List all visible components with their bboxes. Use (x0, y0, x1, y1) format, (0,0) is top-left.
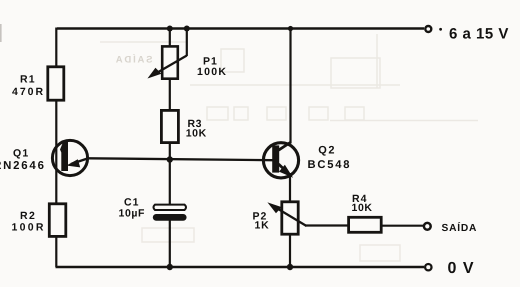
junction node bottom C1 (167, 264, 173, 270)
wire P2 to bottom rail (289, 235, 291, 268)
terminal 0V (425, 264, 431, 270)
junction node top Q2 collector (288, 26, 293, 31)
svg-text:1K: 1K (255, 220, 270, 232)
wire left vertical (55, 28, 57, 268)
ink dot (439, 28, 442, 31)
junction node top P1 left (167, 26, 173, 32)
showthrough box row (207, 107, 364, 120)
svg-text:Q2: Q2 (318, 145, 336, 157)
wire bottom rail (56, 266, 425, 268)
resistor R4 (349, 217, 382, 232)
junction node bottom P2 (287, 264, 293, 270)
wire Q2 emitter to P2 (289, 173, 291, 202)
transistor Q1 emitter arrow (68, 158, 89, 167)
wire P1 to R3 (169, 79, 171, 111)
svg-text:10K: 10K (352, 202, 373, 214)
wire node to C1 (169, 159, 171, 205)
svg-text:C1: C1 (124, 196, 139, 208)
terminal SAIDA (424, 223, 431, 230)
junction node emitter/C1 (167, 156, 173, 162)
svg-text:0 V: 0 V (448, 260, 475, 277)
transistor Q1 base bar (60, 142, 68, 171)
wire P1 left lead (169, 28, 171, 47)
wire Q2 collector vertical (289, 28, 291, 143)
showthrough rect (142, 228, 194, 242)
svg-text:10µF: 10µF (119, 208, 146, 220)
svg-text:10K: 10K (186, 128, 207, 140)
transistor Q1 circle (52, 140, 87, 175)
resistor R3 (161, 110, 178, 142)
scan edge smudge (0, 24, 2, 42)
svg-text:470R: 470R (12, 86, 45, 98)
potentiometer P1 body (162, 46, 178, 78)
svg-text:SAÍDA: SAÍDA (442, 221, 478, 234)
svg-text:2N2646: 2N2646 (0, 160, 46, 172)
showthrough rect (221, 49, 244, 72)
junction node top P1 wiper (184, 26, 190, 32)
showthrough rect (360, 245, 400, 261)
showthrough line (100, 34, 478, 121)
svg-text:BC548: BC548 (308, 159, 352, 171)
svg-text:R2: R2 (20, 210, 36, 222)
potentiometer P1 wiper arrow (149, 56, 187, 78)
terminal +V (425, 26, 431, 32)
svg-text:Q1: Q1 (13, 147, 29, 159)
wire R3 to node (169, 143, 171, 161)
svg-text:SAÍDA: SAÍDA (114, 54, 153, 66)
transistor Q2 collector (279, 142, 292, 150)
potentiometer P2 body (282, 202, 298, 234)
svg-text:100R: 100R (12, 222, 46, 234)
capacitor C1 bottom plate (153, 214, 187, 221)
svg-text:R1: R1 (20, 74, 36, 86)
wire P1 wiper lead (186, 28, 188, 56)
resistor R2 (49, 204, 66, 237)
capacitor C1 top plate (154, 205, 187, 210)
svg-text:100K: 100K (197, 66, 227, 78)
potentiometer P2 wiper arrow (269, 203, 307, 226)
wire R4 to SAIDA terminal (381, 225, 424, 227)
transistor Q2 base bar (272, 145, 279, 172)
transistor Q2 circle (263, 143, 298, 178)
showthrough rect (331, 58, 380, 88)
wire P2 wiper to R4 (306, 224, 349, 226)
wire top rail (57, 27, 424, 29)
wire C1 to bottom rail (169, 221, 171, 268)
resistor R1 (48, 67, 64, 100)
wire Q1 emitter to Q2 base horizontal (88, 158, 273, 160)
svg-text:6 a 15 V: 6 a 15 V (449, 26, 509, 43)
transistor Q2 emitter arrow (279, 164, 292, 177)
